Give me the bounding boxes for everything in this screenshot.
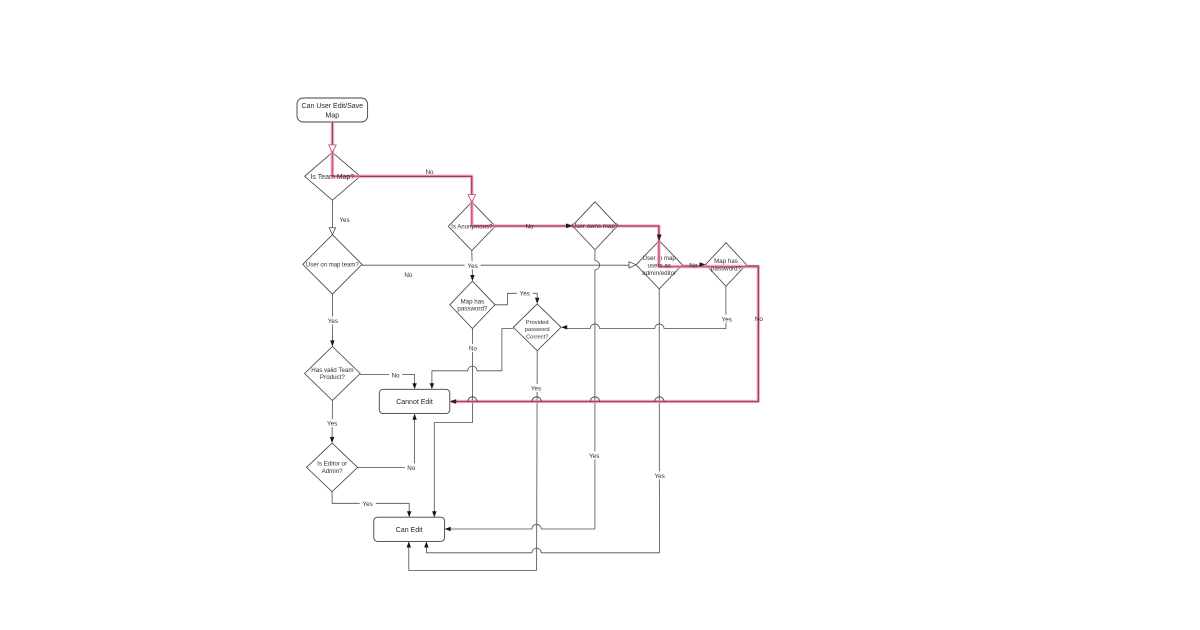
- open pink arrow into Is Team Map top: [329, 145, 337, 153]
- svg-text:Is Anonymous?: Is Anonymous?: [451, 225, 493, 231]
- svg-text:password?: password?: [711, 265, 741, 272]
- svg-text:password: password: [525, 327, 550, 333]
- svg-text:password?: password?: [457, 306, 487, 313]
- label Yes (Map has password left): [517, 289, 533, 298]
- open arrow into User on map team top: [329, 228, 336, 235]
- svg-text:No: No: [689, 263, 698, 270]
- svg-text:Correct?: Correct?: [526, 335, 549, 341]
- decision Map has password? (right): [706, 243, 747, 287]
- svg-text:No: No: [404, 272, 413, 279]
- wire User on map team Yes -> Has valid Team Product: [331, 294, 333, 341]
- arrow into Is Editor or Admin top: [330, 437, 334, 443]
- label No (Map has password left): [467, 344, 480, 353]
- wire pink core full route: [332, 122, 758, 402]
- svg-text:Yes: Yes: [722, 316, 732, 323]
- svg-text:Map has: Map has: [461, 298, 485, 305]
- arrow into Cannot Edit top (from has valid team No): [412, 383, 416, 389]
- jump arc over x=536.6: [532, 397, 541, 402]
- jump arc over x=472.4: [468, 397, 477, 402]
- arrow into Map has password left top: [470, 275, 474, 281]
- wire Is Team Map? Yes -> User on map team: [331, 200, 333, 228]
- svg-text:Map: Map: [325, 112, 339, 119]
- svg-text:No: No: [525, 224, 534, 231]
- svg-text:Has valid Team: Has valid Team: [311, 367, 353, 374]
- wire Has valid Team Product Yes -> Is Editor or Admin: [331, 401, 333, 438]
- decision Map has password? (left): [450, 281, 495, 328]
- label No (Is Editor or Admin): [405, 463, 418, 472]
- arrow into Can Edit bottom (from provided password Yes): [407, 541, 411, 547]
- decision Is Team Map?: [305, 152, 361, 200]
- decision Is Editor or Admin?: [307, 443, 358, 492]
- wire Is Editor or Admin No -> Cannot Edit bottom: [358, 419, 415, 467]
- decision Has valid Team Product?: [305, 347, 361, 401]
- arrow into Can Edit top (from editor Yes): [407, 511, 411, 517]
- wire Map has password right Yes -> Provided password right: [567, 286, 726, 328]
- svg-text:Is Team Map?: Is Team Map?: [310, 174, 354, 181]
- start box Can User Edit/Save Map: [297, 98, 368, 122]
- svg-text:No: No: [755, 316, 764, 323]
- svg-text:Yes: Yes: [531, 386, 541, 393]
- svg-text:Cannot Edit: Cannot Edit: [396, 399, 433, 406]
- arrow into Provided password right: [561, 325, 567, 329]
- svg-text:No: No: [392, 373, 401, 380]
- label Yes (User on map team): [325, 317, 341, 326]
- decision Is Anonymous?: [448, 202, 495, 250]
- svg-text:Product?: Product?: [320, 374, 345, 381]
- wire User owns map? Yes -> Can Edit (right side), jump at y=265.2, jump over x=536.6: [450, 250, 599, 529]
- wire black core on pink (outside diamonds): [332, 122, 758, 402]
- wire pink halo full route: [332, 122, 758, 402]
- decision User owns map?: [572, 202, 617, 250]
- wire Map has password left Yes -> Provided password top: [495, 293, 537, 305]
- label Yes (Map has password right): [719, 315, 735, 324]
- svg-text:No: No: [407, 465, 416, 472]
- arrow into Can Edit bottom (from user in map Yes): [424, 541, 428, 547]
- label Yes (User owns map): [586, 452, 602, 461]
- label Yes (Provided password): [528, 384, 544, 393]
- label Yes (Is Editor or Admin): [360, 500, 376, 509]
- arrow into Provided password top: [535, 298, 539, 304]
- box Can Edit: [374, 517, 445, 541]
- wire Is Editor or Admin Yes -> Can Edit top: [332, 492, 409, 512]
- arrow into User owns map left: [566, 223, 572, 228]
- svg-text:Yes: Yes: [327, 421, 337, 428]
- label Yes (Is Team Map): [337, 216, 353, 225]
- wire Provided password Yes -> Can Edit bottom: [409, 351, 537, 571]
- svg-text:Admin?: Admin?: [322, 468, 344, 475]
- wire Provided password No -> Cannot Edit top: [432, 329, 513, 384]
- arrow into Cannot Edit bottom (from editor No): [412, 414, 416, 420]
- svg-text:Map has: Map has: [714, 258, 738, 265]
- arrow into Cannot Edit right: [450, 399, 456, 404]
- decision User in map users as admin/editor: [636, 241, 682, 289]
- arrow into Map has password right left vertex: [700, 262, 706, 267]
- svg-text:Yes: Yes: [589, 453, 599, 460]
- wire Has valid Team Product No -> Cannot Edit top: [360, 374, 414, 383]
- svg-text:Can User Edit/Save: Can User Edit/Save: [302, 103, 364, 110]
- svg-text:Yes: Yes: [520, 291, 530, 298]
- svg-text:Yes: Yes: [467, 263, 477, 270]
- svg-text:Yes: Yes: [654, 473, 664, 480]
- svg-text:Provided: Provided: [526, 320, 549, 326]
- label No (User on map team): [402, 270, 415, 279]
- svg-text:admin/editor: admin/editor: [642, 270, 676, 277]
- box Cannot Edit: [379, 389, 450, 413]
- arrow into Has valid Team Product top: [330, 340, 334, 346]
- open pink arrow into Is Anonymous top: [468, 195, 476, 203]
- svg-text:Can Edit: Can Edit: [396, 527, 423, 534]
- label No (Is Team Map): [423, 168, 436, 177]
- arrow into Cannot Edit top (from provided password No): [430, 383, 434, 389]
- decision User on map team?: [303, 235, 362, 294]
- svg-text:Yes: Yes: [339, 217, 349, 224]
- svg-text:Yes: Yes: [328, 318, 338, 325]
- decision Provided password Correct?: [513, 304, 561, 351]
- arrow into Can Edit right: [445, 527, 451, 531]
- svg-text:User on map team?: User on map team?: [306, 263, 359, 269]
- arrow into User in map users top: [657, 235, 662, 241]
- label Yes (Is Anonymous): [465, 261, 481, 270]
- wire Map has password left No -> Can Edit top: [434, 329, 472, 512]
- svg-text:User owns map?: User owns map?: [572, 223, 619, 230]
- jump arc over x=594.9: [590, 397, 599, 402]
- svg-text:users as: users as: [648, 263, 671, 270]
- wire User in map users Yes -> Can Edit bottom: [426, 289, 659, 553]
- svg-text:No: No: [469, 346, 478, 353]
- label Yes (Has valid Team Product): [324, 419, 340, 428]
- arrow into Can Edit top (from map has password left No): [432, 511, 436, 517]
- jump arc over x=659.4: [655, 397, 664, 402]
- wire Is Anonymous? Yes -> Map has password left: [471, 251, 474, 276]
- label No (Has valid Team Product): [389, 371, 402, 380]
- svg-text:Yes: Yes: [363, 501, 373, 508]
- svg-text:Is Editor or: Is Editor or: [317, 461, 347, 468]
- wire User on map team? No -> User in map users (open arrow): [362, 264, 629, 266]
- open arrow into User in map users left: [629, 262, 636, 268]
- label Yes (User in map users): [652, 471, 668, 480]
